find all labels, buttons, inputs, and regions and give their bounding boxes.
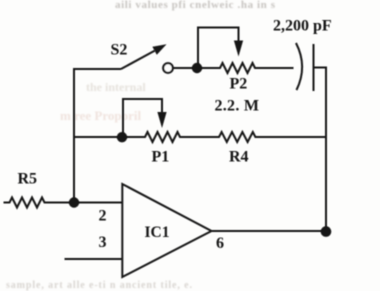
svg-text:S2: S2 (111, 42, 128, 59)
svg-text:the internal: the internal (86, 80, 146, 94)
svg-text:IC1: IC1 (145, 224, 170, 241)
svg-text:sample, art alle e-ti n ancie: sample, art alle e-ti n ancient tile, e. (6, 280, 193, 291)
svg-text:6: 6 (216, 235, 224, 252)
svg-text:P2: P2 (230, 76, 248, 93)
svg-text:R4: R4 (229, 149, 249, 166)
svg-text:2,200 pF: 2,200 pF (273, 18, 332, 35)
svg-text:R5: R5 (18, 171, 38, 188)
svg-text:P1: P1 (152, 149, 170, 166)
svg-text:aili values pfi cnelweic .ha i: aili values pfi cnelweic .ha in s (115, 0, 276, 11)
svg-text:2: 2 (99, 208, 107, 225)
svg-text:m ree Proporil: m ree Proporil (60, 108, 141, 123)
svg-text:2.2. M: 2.2. M (215, 98, 260, 115)
svg-text:3: 3 (99, 234, 107, 251)
